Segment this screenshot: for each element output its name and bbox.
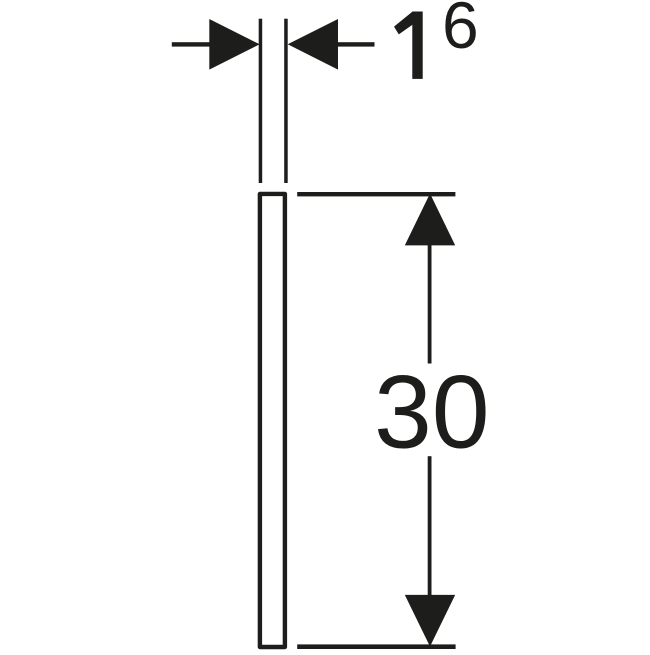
height dimension line upper segment (428, 244, 432, 364)
width dimension right arrowhead (288, 19, 338, 70)
svg-text:30: 30 (374, 355, 490, 471)
width dimension left arrowhead (209, 19, 259, 70)
width value label 1 (stem) (412, 12, 422, 79)
panel profile rectangle (260, 194, 285, 647)
svg-text:6: 6 (442, 0, 479, 62)
width value label 1 (flag) (394, 12, 413, 35)
width dimension right tail wire (338, 42, 375, 46)
height extension line top (297, 192, 455, 196)
height dimension line lower segment (428, 456, 432, 596)
height extension line bottom (297, 644, 455, 649)
extension line left (width dim) (259, 19, 263, 183)
extension line right (width dim) (284, 19, 288, 183)
height dimension bottom arrowhead (405, 595, 455, 647)
width dimension left tail wire (172, 42, 211, 46)
height dimension top arrowhead (405, 194, 455, 246)
